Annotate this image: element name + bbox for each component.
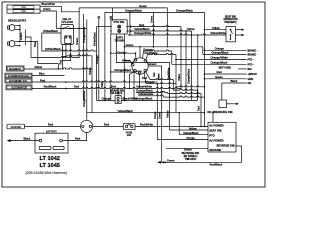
wire Blue from alternator AC	[32, 72, 65, 76]
wire Orange into brake switch left	[97, 97, 116, 102]
svg-text:Yellow: Yellow	[88, 67, 92, 75]
svg-text:Purple: Purple	[187, 136, 196, 140]
svg-text:Orange/White: Orange/White	[82, 90, 86, 107]
wire Yellow/Black from PTO switch	[128, 27, 195, 31]
right rail BRAKE- orange	[181, 27, 258, 89]
svg-text:White/Black: White/Black	[43, 29, 58, 33]
right rail BRAKE- orange/black	[186, 31, 258, 92]
loop row y90.1	[173, 89, 197, 100]
wire Yellow/Black long bottom	[87, 109, 205, 113]
svg-text:BRAKE -: BRAKE -	[248, 54, 258, 57]
wire Red solenoid to fuse	[93, 123, 124, 127]
svg-text:Orange/Black: Orange/Black	[176, 9, 194, 13]
svg-text:PTO: PTO	[21, 7, 26, 9]
svg-text:(629-04188 Wire Harness): (629-04188 Wire Harness)	[26, 171, 67, 175]
wire purple vertical x157.3	[153, 84, 157, 140]
svg-text:Yellow: Yellow	[178, 74, 181, 81]
svg-text:MAGNETO: MAGNETO	[9, 68, 21, 71]
wire PTO pin down green	[124, 34, 203, 100]
wire Yellow from magneto	[24, 65, 92, 70]
svg-text:Orange/White: Orange/White	[211, 56, 229, 60]
wire key switch lower-left pin down	[130, 72, 135, 89]
starter box	[7, 124, 25, 129]
svg-text:AFTERFIRE SOL.: AFTERFIRE SOL.	[9, 80, 28, 83]
wire Red from afterfire solenoid	[32, 78, 157, 82]
afterfire solenoid box	[5, 78, 32, 83]
wire Purple from key switch	[144, 72, 176, 84]
svg-text:(White/Black: (White/Black	[45, 47, 61, 51]
svg-text:Green: Green	[75, 37, 79, 45]
svg-text:Red: Red	[48, 123, 54, 127]
svg-text:Purple: Purple	[153, 111, 157, 119]
svg-text:ALTERNATOR (AC): ALTERNATOR (AC)	[8, 75, 29, 78]
node green vertical x79	[78, 8, 80, 58]
PTO switch box	[110, 20, 128, 34]
svg-text:Purple: Purple	[146, 80, 155, 84]
svg-text:Red/Black: Red/Black	[44, 85, 57, 89]
svg-text:Red: Red	[217, 70, 223, 74]
wire yellow vertical x169.6	[166, 63, 170, 131]
wire Black battery to chassis arrow	[7, 136, 39, 142]
wire into key switch left pin	[124, 60, 132, 64]
wire Yellow/White lower	[138, 92, 164, 96]
brake switch box	[115, 96, 121, 104]
wire Orange right of key switch	[143, 47, 172, 58]
wire Red/Black long run with Red and Yellow/White labels	[32, 85, 181, 90]
svg-text:Red/Black: Red/Black	[210, 163, 223, 167]
alternator (AC) box	[5, 73, 32, 78]
wire green rail top	[79, 4, 167, 47]
module box reverse sw	[208, 122, 236, 152]
svg-text:Red/White: Red/White	[140, 123, 154, 127]
svg-text:Green: Green	[215, 75, 223, 79]
wire Red/Black from module reverse sw row to ground run	[157, 146, 241, 167]
relay 725-1648	[61, 17, 74, 45]
wire orange/black top rail	[105, 9, 204, 13]
wire Orange/Black below key switch	[136, 89, 168, 93]
wire Red/White fuse to module A1	[135, 123, 208, 128]
loop row y93.6	[168, 92, 201, 126]
wire yellow/black vertical x179.2	[178, 113, 180, 135]
svg-text:Yellow: Yellow	[187, 27, 196, 31]
svg-text:Orange: Orange	[95, 55, 99, 64]
right rail PTO- orange/black	[172, 51, 254, 66]
PTO indicator box	[7, 5, 40, 13]
svg-text:Red: Red	[111, 85, 117, 89]
key switch	[132, 58, 149, 75]
wire Red starter to solenoid	[25, 123, 81, 127]
wire relay pin stub loop	[62, 43, 70, 60]
seat switch label	[223, 16, 237, 24]
wire Green from headlights	[19, 32, 79, 57]
svg-text:Yellow: Yellow	[101, 81, 104, 88]
starter solenoid	[81, 120, 93, 132]
wire Green right of key switch	[148, 62, 162, 66]
svg-text:725-1541: 725-1541	[185, 157, 197, 161]
svg-text:NOT USED: NOT USED	[219, 66, 232, 69]
wire Red from PTO switch	[128, 23, 181, 27]
wire orange/black vertical x204.4	[203, 12, 205, 126]
wire Purple into module	[157, 136, 208, 140]
svg-text:(TEC): (TEC)	[43, 7, 51, 11]
svg-text:OIL PRESSURE SW.: OIL PRESSURE SW.	[207, 110, 233, 114]
svg-text:ALTERNATOR: ALTERNATOR	[11, 87, 27, 90]
svg-text:LT 1045: LT 1045	[40, 163, 60, 169]
wire relay output to Orange/White vertical	[70, 27, 87, 29]
wire Red diagonal from key switch	[142, 71, 173, 80]
wire (TEC) from PTO box to relay	[40, 7, 61, 28]
oil pressure switch	[207, 83, 239, 114]
svg-text:White/Black: White/Black	[92, 32, 96, 46]
headlight bus verticals	[19, 26, 21, 42]
wire vertical x129.9 from orange/black rail to seat wire	[130, 12, 131, 35]
wire key switch bottom pin down	[139, 73, 141, 88]
svg-text:PTO -: PTO -	[248, 63, 255, 66]
svg-text:Blue: Blue	[39, 72, 45, 76]
wire orange into key switch	[135, 53, 138, 59]
wire Orange/White from PTO switch to seat switch	[128, 31, 226, 97]
svg-text:REVERSE SW.: REVERSE SW.	[216, 143, 235, 147]
svg-text:OIL: OIL	[248, 82, 253, 85]
wire Orange/Black from brake switch right	[121, 97, 197, 102]
svg-text:Yellow: Yellow	[212, 26, 221, 30]
loop row y97.1	[164, 96, 205, 97]
wire yellow vertical x92	[88, 56, 92, 113]
right rail OIL row	[176, 55, 252, 113]
svg-text:Green: Green	[126, 43, 134, 47]
wire green to key switch top	[139, 47, 141, 58]
svg-text:STARTER: STARTER	[10, 126, 21, 129]
wire relay coil pin 1 down	[65, 43, 67, 55]
wire vertical x83.5	[83, 14, 85, 100]
svg-text:Black: Black	[24, 136, 31, 140]
right rail PTO- orange/white	[175, 56, 254, 62]
wire Blue/White from PTO box	[40, 2, 80, 12]
svg-text:Red: Red	[197, 106, 201, 111]
svg-text:Orange/White: Orange/White	[134, 31, 152, 35]
wire green vertical x161.7	[158, 66, 162, 163]
border frame	[2, 2, 265, 187]
wire Yellow into module	[170, 126, 208, 130]
svg-text:LT 1042: LT 1042	[40, 156, 60, 162]
seat switch box	[226, 27, 235, 42]
svg-text:Yellow/white: Yellow/white	[138, 92, 154, 96]
wire White/Black relay loop	[42, 29, 97, 51]
svg-text:Orange/Black: Orange/Black	[136, 97, 154, 101]
svg-text:Blue: Blue	[33, 41, 37, 47]
wire brake top pin	[117, 88, 119, 95]
svg-text:Yellow/Black: Yellow/Black	[117, 109, 133, 113]
svg-text:Green: Green	[149, 62, 157, 66]
alternator box	[6, 85, 32, 90]
svg-text:PTO SW.: PTO SW.	[114, 20, 125, 24]
svg-text:Orange/Black: Orange/Black	[114, 68, 132, 72]
svg-text:GRN.: GRN.	[248, 78, 254, 81]
svg-text:Yellow: Yellow	[34, 65, 43, 69]
wire PTO pin down orange	[110, 17, 136, 101]
svg-text:Orange: Orange	[117, 51, 127, 55]
svg-text:Red: Red	[75, 136, 81, 140]
wire Blue from headlights	[20, 41, 58, 69]
wire Orange/White vertical to solenoid	[82, 20, 87, 121]
svg-text:Blue/White: Blue/White	[42, 2, 56, 6]
svg-text:Red/White: Red/White	[168, 67, 171, 79]
headlight bulb 2	[8, 41, 21, 47]
svg-text:Yellow: Yellow	[166, 110, 170, 118]
svg-text:Yellow/White: Yellow/White	[210, 31, 226, 35]
svg-text:Green: Green	[149, 15, 153, 23]
wire orange vertical x98.8	[95, 17, 100, 101]
wire Black/White into key switch	[110, 68, 138, 100]
svg-text:PTO -: PTO -	[248, 59, 255, 62]
svg-text:Green: Green	[167, 158, 175, 162]
svg-text:PRESENT): PRESENT)	[224, 21, 236, 24]
svg-text:Red: Red	[139, 23, 145, 27]
svg-text:725-1648: 725-1648	[61, 20, 73, 24]
fuse 20A	[123, 124, 135, 138]
svg-text:Orange: Orange	[102, 97, 112, 101]
svg-text:Orange/Black: Orange/Black	[211, 61, 229, 65]
svg-text:Orange/Black: Orange/Black	[125, 9, 143, 13]
svg-text:A2 POWER: A2 POWER	[209, 139, 223, 143]
wire Red/White right of key switch	[145, 51, 177, 60]
wire green vertical x153.4	[149, 12, 154, 47]
wire PTO pin down yellow	[116, 34, 169, 63]
svg-text:Red: Red	[74, 85, 80, 89]
svg-text:Black: Black	[231, 79, 238, 83]
wire white/black vertical x96.5	[92, 27, 96, 101]
svg-text:+S/N DC: +S/N DC	[248, 73, 258, 76]
svg-text:Red: Red	[153, 72, 156, 77]
wire Green into module ground	[166, 147, 208, 151]
seat switch output arrows	[235, 29, 241, 31]
svg-text:Green: Green	[139, 4, 147, 8]
svg-text:725-1657A: 725-1657A	[110, 92, 123, 95]
svg-text:Orange/Black: Orange/Black	[212, 51, 230, 55]
svg-text:SEAT SW.: SEAT SW.	[209, 129, 222, 133]
svg-text:PTO: PTO	[209, 134, 214, 138]
svg-text:Orange/White: Orange/White	[82, 26, 86, 43]
reverse sw panel label	[182, 151, 200, 161]
headlight bulb 1	[8, 25, 21, 31]
battery box	[35, 130, 68, 153]
wire Red battery to solenoid	[62, 133, 86, 141]
right rail +S/N DC red	[204, 70, 258, 76]
right rail N/C not used	[219, 66, 252, 71]
wire module top pin	[212, 113, 214, 122]
svg-text:Orange/Black: Orange/Black	[187, 68, 190, 84]
svg-text:Yellow: Yellow	[122, 59, 131, 63]
right rail GRN green	[204, 75, 254, 81]
svg-text:GROUND: GROUND	[209, 148, 221, 152]
svg-text:Green: Green	[19, 32, 23, 40]
svg-text:20A: 20A	[127, 134, 132, 137]
svg-text:A1 POWER: A1 POWER	[209, 124, 223, 128]
wire PTO box left pin stub	[97, 26, 112, 28]
svg-text:N/C: N/C	[248, 68, 252, 71]
magneto box	[6, 66, 24, 71]
svg-text:Red: Red	[104, 123, 110, 127]
wire Yellow into seat switch	[204, 26, 226, 31]
svg-text:Green: Green	[158, 111, 162, 119]
svg-text:A2 B1: A2 B1	[136, 70, 143, 73]
svg-text:HEADLIGHTS: HEADLIGHTS	[8, 18, 26, 22]
svg-text:BRAKE -: BRAKE -	[248, 49, 258, 52]
svg-text:PTO: PTO	[21, 11, 26, 13]
wire Yellow/Black into module	[179, 131, 208, 135]
